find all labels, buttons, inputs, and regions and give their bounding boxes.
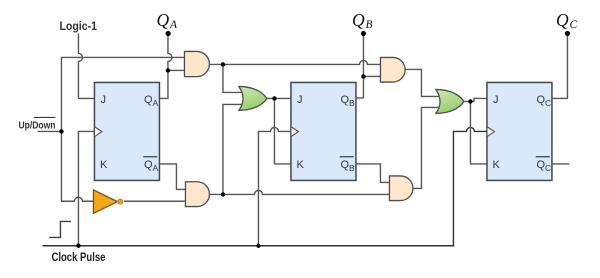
wire FF1 clock drop bbox=[78, 131, 94, 245]
inverter bubble bbox=[118, 199, 123, 204]
AND gate A3 (up path stage 2) bbox=[380, 57, 405, 82]
svg-text:B: B bbox=[365, 19, 372, 31]
node QA terminal bbox=[166, 31, 171, 36]
svg-text:Q: Q bbox=[556, 10, 569, 30]
wire QC net: QC pin up to QC terminal bbox=[552, 33, 568, 98]
svg-text:Up/Down: Up/Down bbox=[18, 120, 55, 131]
wire OR2 output down to K of FF3 bbox=[470, 101, 487, 164]
JK flip-flop U1 (bit A) bbox=[94, 82, 159, 180]
node clock junction FF1 bbox=[76, 244, 80, 248]
AND gate A4 (down path stage 2) bbox=[389, 176, 413, 201]
wire OR2 output to J of FF3 bbox=[462, 98, 487, 101]
svg-text:J: J bbox=[100, 94, 106, 106]
wire Up/Down rail: top horizontal to AND1 + left vertical + inverter input bbox=[61, 57, 184, 201]
wire AND1 output rail to AND3 (hop at QB net) bbox=[209, 60, 380, 64]
svg-text:Clock Pulse: Clock Pulse bbox=[51, 252, 105, 264]
OR gate O1 (stage 1) bbox=[239, 86, 267, 110]
node QC terminal bbox=[565, 31, 570, 36]
svg-text:Q: Q bbox=[352, 10, 365, 30]
wire QA net: QA pin up to QA terminal (hops over rail) bbox=[159, 33, 172, 98]
JK flip-flop U3 (bit C) bbox=[487, 82, 552, 180]
wire AND1 out down to OR1 upper input bbox=[223, 64, 245, 92]
svg-text:J: J bbox=[297, 94, 303, 106]
OR gate O2 (stage 2) bbox=[436, 89, 464, 113]
wire QC-bar stub bbox=[552, 163, 570, 165]
node AND2 output junction bbox=[221, 192, 225, 196]
wire clock pulse rail to FF3 clock (hop at JK drop) bbox=[42, 127, 487, 245]
wire inverter output to AND2 lower input bbox=[124, 200, 186, 202]
wire Logic-1 to J of FF1 (hops over rail) bbox=[78, 33, 94, 98]
inverter (NOT gate) on Up/Down line bbox=[93, 190, 117, 213]
svg-text:J: J bbox=[493, 94, 499, 106]
svg-text:Logic-1: Logic-1 bbox=[59, 21, 97, 33]
svg-text:K: K bbox=[492, 159, 500, 171]
svg-text:K: K bbox=[100, 159, 108, 171]
svg-text:C: C bbox=[569, 19, 577, 31]
clock pulse step symbol bbox=[49, 221, 70, 237]
wire AND2 output rail to AND4 (hop at FF2 clock drop) bbox=[209, 190, 389, 194]
wire Up/Down input stub bbox=[37, 130, 61, 132]
node AND1 output junction bbox=[221, 62, 225, 66]
node OR1 output junction bbox=[272, 96, 276, 100]
wire FF2 clock branch (hop at JK drop) bbox=[258, 127, 291, 245]
wire QB to AND3 lower input bbox=[363, 75, 380, 77]
node clock junction FF2 bbox=[256, 244, 260, 248]
JK flip-flop U2 (bit B) bbox=[291, 82, 356, 180]
node QB terminal bbox=[361, 31, 366, 36]
AND gate A1 (up path stage 1) bbox=[184, 51, 209, 76]
wire AND4 output to OR2 lower input bbox=[413, 107, 443, 188]
wire OR1 output down to K of FF2 bbox=[274, 98, 291, 164]
svg-text:K: K bbox=[296, 159, 304, 171]
wire QB-bar to AND4 upper input bbox=[355, 164, 389, 183]
wire QB net: QB pin up to QB terminal bbox=[355, 33, 363, 98]
wire AND3 output to OR2 upper input bbox=[405, 69, 442, 96]
node QA junction at AND1 input bbox=[166, 68, 170, 72]
wire QA to AND1 lower input bbox=[168, 69, 185, 71]
wire QA-bar to AND2 upper input bbox=[159, 164, 185, 190]
node QB junction at AND3 input bbox=[361, 74, 365, 78]
svg-text:A: A bbox=[169, 19, 178, 31]
AND gate A2 (down path stage 1) bbox=[185, 182, 209, 207]
wire OR1 output to J of FF2 bbox=[266, 97, 291, 99]
wire OR1 lower input from AND2 output bbox=[223, 104, 245, 194]
node Up/Down junction bbox=[59, 129, 63, 133]
node OR2 output junction bbox=[468, 99, 472, 103]
svg-text:Q: Q bbox=[156, 10, 169, 30]
